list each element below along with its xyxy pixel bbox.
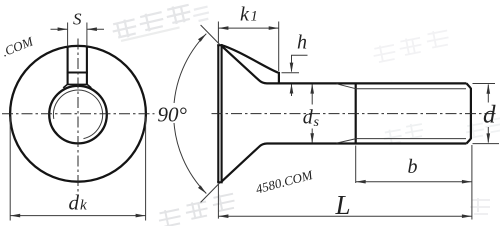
svg-text:d: d [483, 102, 496, 129]
watermark bottom-center glyphs [156, 192, 236, 228]
dim L arrow right [462, 214, 472, 218]
nib profile curve and end edge [221, 45, 279, 84]
cone top extension (thin) [201, 25, 220, 44]
svg-text:S: S [73, 9, 82, 28]
dim k1 extension left [217, 22, 219, 44]
end chamfer top [467, 83, 471, 88]
thread minor top line [356, 88, 466, 90]
shank bottom line [267, 142, 467, 144]
cone bottom edge [221, 144, 267, 182]
dim s line right [87, 28, 104, 30]
nib left edge (front view) [67, 47, 69, 85]
90 arc arrow top [198, 34, 206, 42]
watermark top-center [110, 0, 210, 42]
dim ds arrow bottom [310, 133, 314, 143]
dim b extension left [355, 146, 357, 184]
nib right flare [87, 84, 91, 88]
cone bottom extension (thin) [201, 183, 220, 202]
dim b arrow left [356, 180, 366, 184]
dim s arrow left [58, 27, 68, 31]
svg-text:d: d [69, 191, 80, 215]
svg-text:h: h [297, 32, 307, 54]
dim d line bottom [487, 127, 489, 143]
svg-text:1: 1 [251, 9, 258, 25]
watermark top-right [371, 29, 450, 63]
dim k1 arrow left [218, 26, 228, 30]
dim h leader [292, 55, 308, 71]
dim b arrow right [462, 180, 472, 184]
watermark bottom-right [470, 198, 490, 214]
thread runout top diagonal [337, 84, 357, 89]
thread minor bottom line [356, 138, 466, 140]
dim b line [356, 181, 472, 183]
dim ds arrow top [310, 84, 314, 94]
dim dk arrow left [10, 214, 20, 218]
dim h top extension [282, 72, 300, 74]
svg-text:d: d [303, 106, 314, 128]
dim dk arrow right [136, 214, 146, 218]
watermark mid-right faint glyphs [382, 122, 424, 145]
watermark left-edge fragments [0, 33, 36, 59]
dim ds line top [311, 85, 313, 105]
dim k1 line [218, 27, 278, 29]
dim s line left [51, 28, 68, 30]
head face front line [217, 45, 219, 182]
vertical centerline left view [77, 39, 79, 195]
dim d extension top [473, 83, 496, 85]
horizontal centerline left view [2, 113, 155, 115]
90 degree dimension arc [174, 34, 207, 194]
dim L extension left [217, 184, 219, 219]
dim dk line [10, 215, 145, 217]
svg-text:b: b [408, 156, 418, 178]
svg-text:s: s [314, 115, 320, 130]
dim s extension right [86, 23, 88, 47]
dim d extension bottom [473, 143, 500, 145]
shank top line [267, 82, 467, 84]
dim k1 arrow right [269, 26, 279, 30]
dim d arrow top [487, 84, 491, 94]
dim h arrow bottom [290, 84, 294, 94]
head bottom cap [217, 181, 223, 183]
dim L line [218, 215, 472, 217]
svg-text:k: k [80, 198, 87, 214]
nib left flare [63, 84, 67, 88]
dim L arrow left [218, 214, 228, 218]
nib bottom line [68, 83, 87, 85]
head outer circle dk [10, 46, 146, 182]
end face line [470, 88, 472, 139]
dim d line top [487, 85, 489, 103]
thread minor circle (3/4 arc) [53, 90, 102, 139]
thread runout bottom diagonal [337, 139, 357, 144]
dim ds line bottom [311, 129, 313, 143]
end chamfer bottom [467, 139, 471, 144]
head face back line [221, 45, 223, 182]
dim h tail bottom [291, 85, 293, 97]
svg-text:L: L [335, 190, 351, 220]
90 arc arrow bottom [198, 185, 206, 193]
svg-text:k: k [240, 4, 250, 26]
dim b and L extension right [471, 145, 473, 220]
dim h arrow top [290, 63, 294, 73]
head top cap [217, 44, 223, 46]
dim k1 extension right [278, 22, 280, 72]
dim dk extension right [145, 117, 147, 221]
nib right edge (front view) [86, 47, 88, 85]
dim d arrow bottom [487, 133, 491, 143]
svg-text:90°: 90° [158, 103, 188, 127]
dim s extension left [67, 23, 69, 47]
dim s arrow right [87, 27, 97, 31]
thread start line [355, 83, 357, 143]
dim dk extension left [9, 117, 11, 221]
nib face line [67, 71, 88, 73]
centerline right view [212, 113, 497, 115]
cone top edge [221, 46, 267, 84]
shank circle [49, 86, 107, 144]
